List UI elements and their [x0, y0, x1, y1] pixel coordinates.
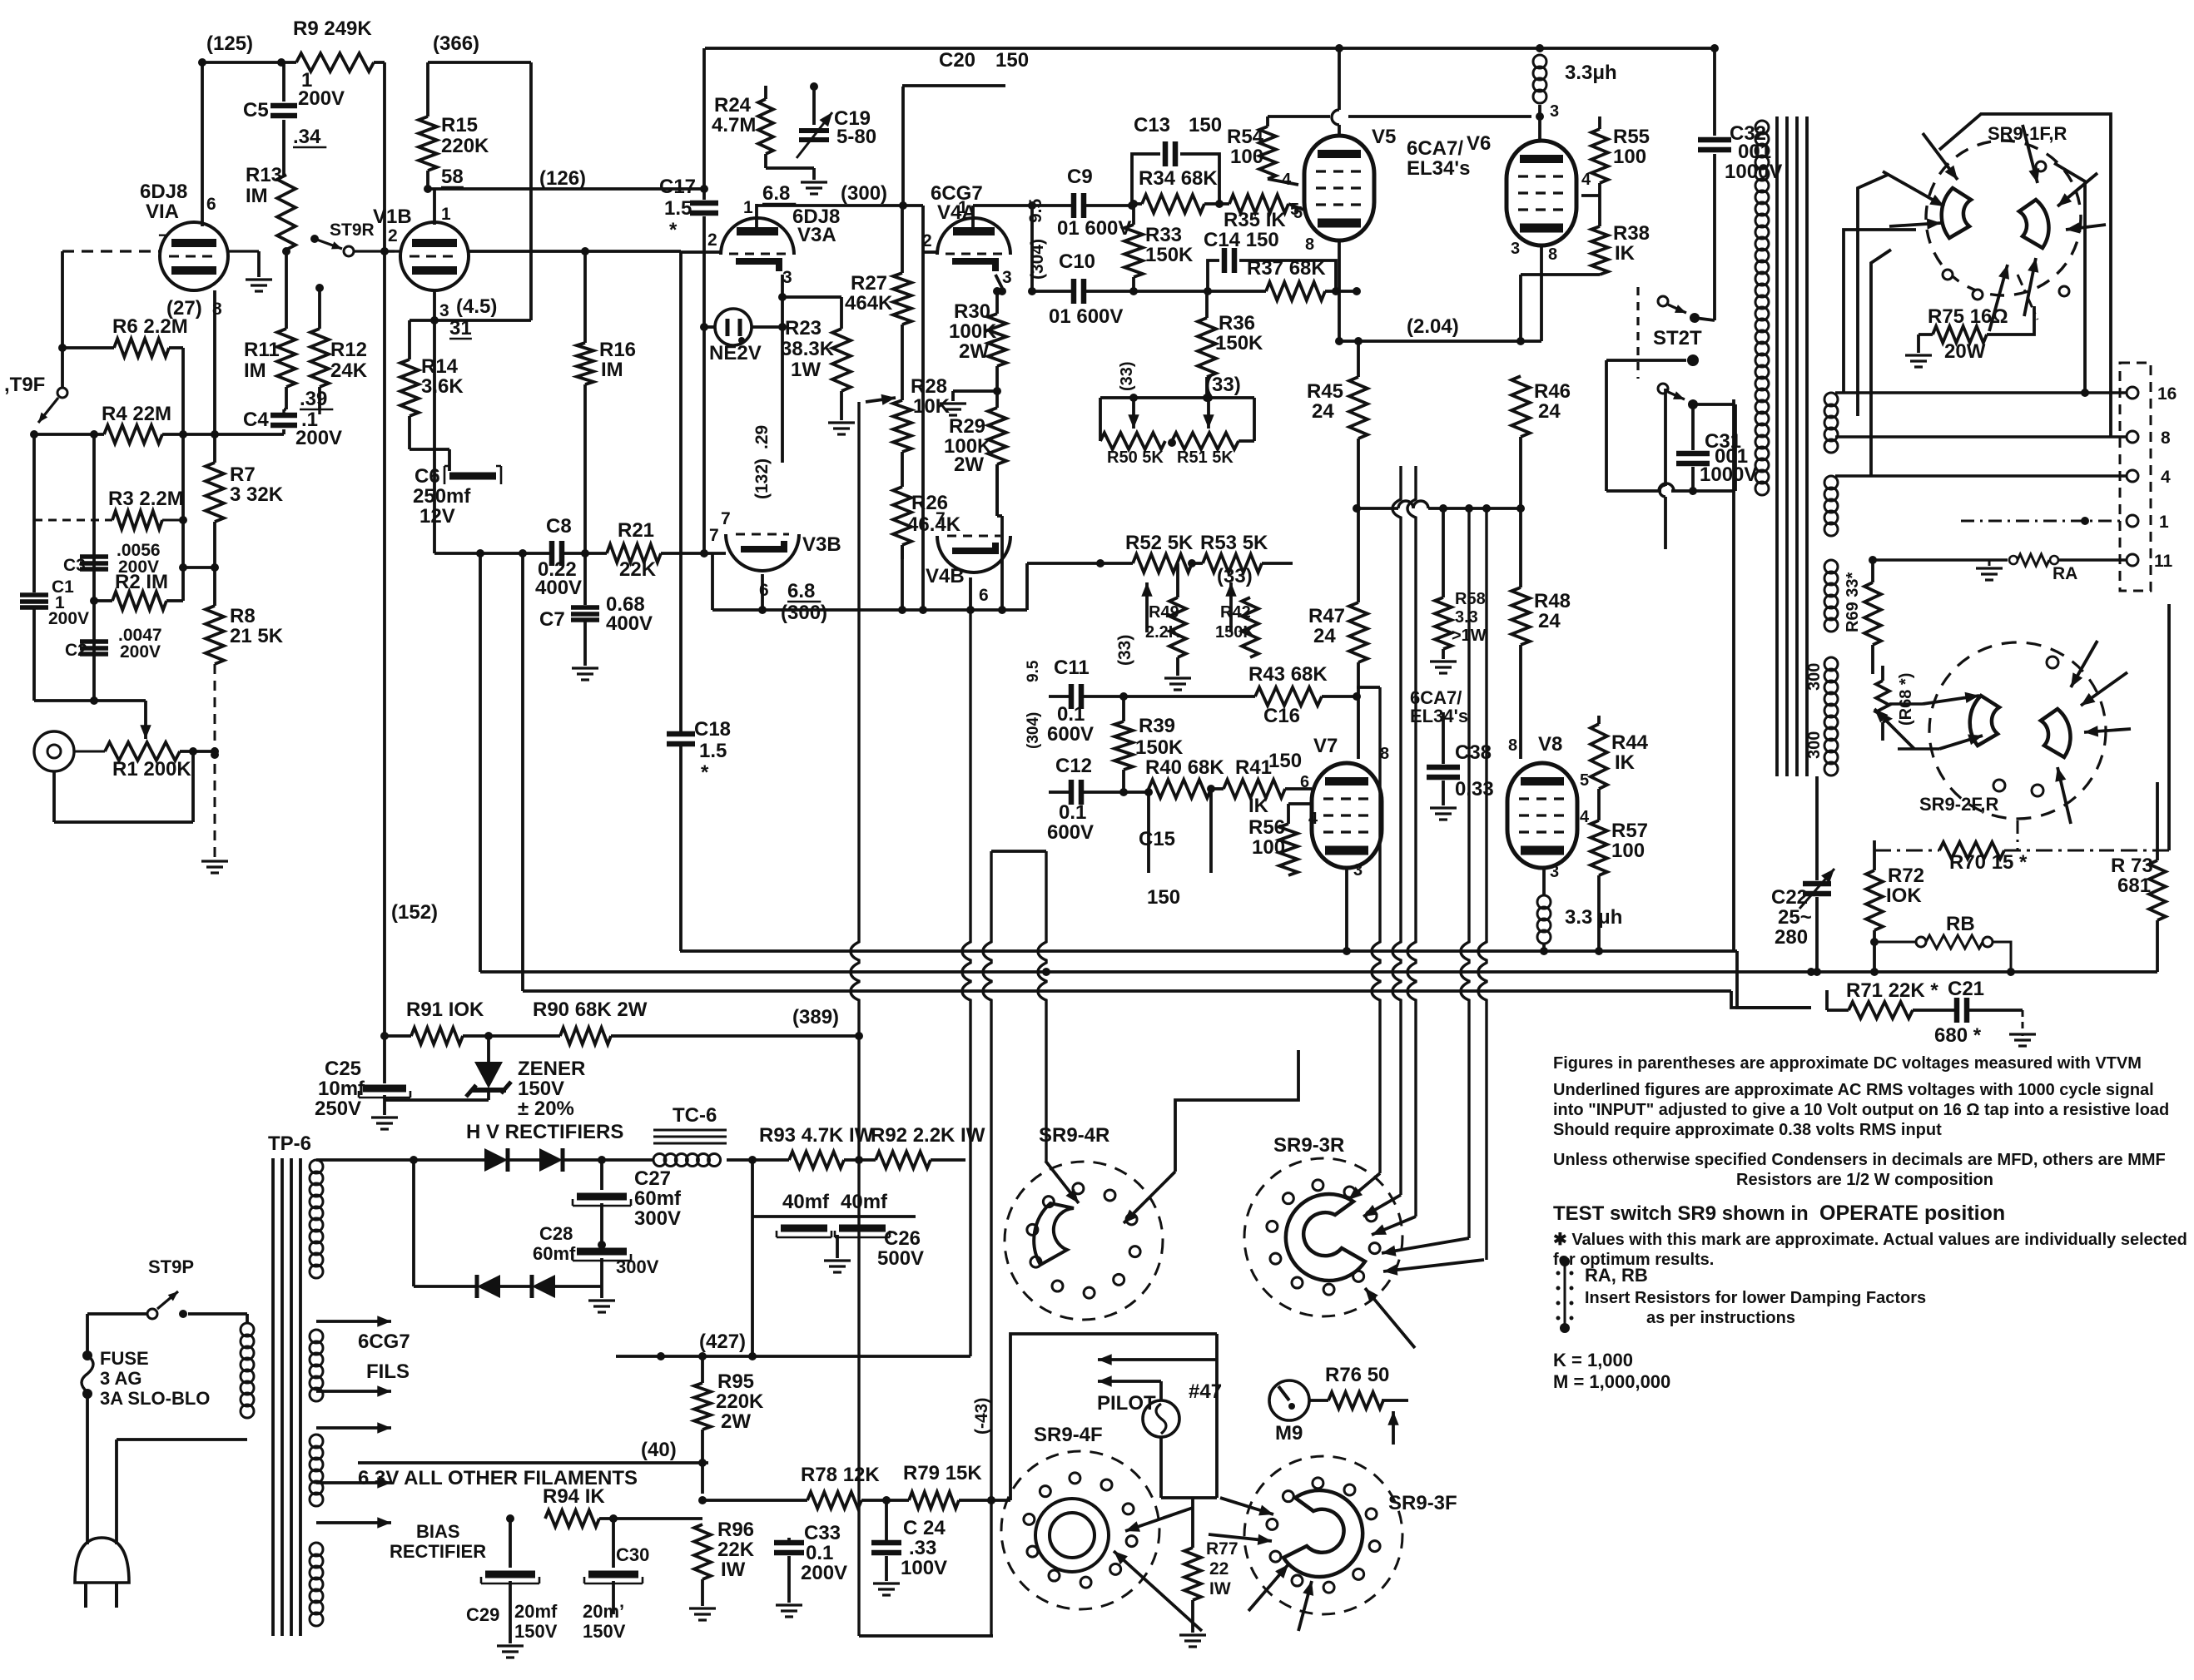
resistor R26 46.4K — [893, 487, 911, 545]
resistor R40 68K — [1144, 788, 1153, 796]
wire SR9-1 inner vertical — [2054, 163, 2085, 393]
coil 3.3uh lower — [1542, 868, 1546, 895]
wire V1B grid — [385, 250, 401, 252]
resistor R90 68K 2W — [560, 1028, 611, 1044]
arrows SR9-2 — [1923, 696, 1979, 704]
wire tap 8 — [1835, 435, 2126, 438]
svg-text:22K: 22K — [717, 1539, 755, 1561]
svg-text:21 5K: 21 5K — [230, 625, 284, 647]
svg-text:R94 IK: R94 IK — [543, 1485, 605, 1508]
capacitor C4 — [282, 409, 285, 414]
ground under C7 — [572, 667, 598, 669]
svg-text:8: 8 — [1305, 235, 1314, 254]
resistor R30 100K 2W — [995, 291, 999, 314]
wire V1B plate up — [433, 189, 436, 225]
capacitor C9 .01 600V — [1032, 204, 1074, 207]
input jack — [34, 731, 74, 771]
wire bus1 east corner — [1737, 951, 1811, 1008]
svg-text:R6 2.2M: R6 2.2M — [112, 315, 188, 338]
svg-text:24K: 24K — [330, 359, 368, 382]
svg-text:.33: .33 — [909, 1537, 936, 1559]
resistor R45 24 — [1357, 341, 1360, 377]
resistor R38 1K — [1591, 226, 1608, 275]
wire R26 bottom to y733 — [901, 545, 904, 610]
capacitor C21 680* — [1913, 1008, 1955, 1012]
svg-text:C4: C4 — [243, 409, 269, 431]
svg-text:C18: C18 — [694, 718, 731, 741]
wire x2001 down from switch — [1664, 389, 1667, 486]
arrows heater — [316, 1320, 391, 1323]
wire (40) row — [358, 1461, 708, 1464]
svg-text:200V: 200V — [801, 1562, 847, 1584]
svg-text:4: 4 — [1581, 171, 1591, 189]
svg-text:C11: C11 — [1054, 657, 1090, 679]
neon NE2V — [715, 309, 752, 345]
svg-text:R9 249K: R9 249K — [293, 17, 372, 40]
svg-text:IOK: IOK — [1886, 885, 1922, 907]
wire V5 cathode down — [1338, 240, 1341, 341]
svg-text:R38: R38 — [1613, 222, 1650, 245]
svg-text:400V: 400V — [535, 577, 582, 599]
diode D1 — [484, 1148, 508, 1172]
wire V1B cathode to C8 row — [433, 320, 436, 553]
tube V8 — [1507, 763, 1577, 868]
RA RB note symbol — [1560, 1256, 1570, 1266]
svg-text:3: 3 — [439, 301, 449, 320]
output transformer core — [1775, 116, 1779, 776]
svg-text:1: 1 — [441, 205, 451, 224]
svg-text:R75 16Ω: R75 16Ω — [1928, 305, 2008, 328]
svg-text:25~: 25~ — [1778, 906, 1812, 929]
wire y522 R4 row — [34, 433, 104, 436]
svg-text:(300): (300) — [781, 602, 827, 624]
wire x2606 lower — [2167, 604, 2171, 850]
capacitor C10 .01 600V — [1032, 290, 1074, 293]
wire HV top y1390 — [316, 1158, 484, 1162]
svg-text:FILS: FILS — [366, 1360, 410, 1383]
wire y350 to C14/R37 — [1134, 290, 1208, 293]
terminal 11 — [2127, 554, 2138, 566]
svg-text:250mf: 250mf — [413, 485, 471, 508]
resistor R21 22K — [607, 544, 661, 562]
wire y733 link — [712, 608, 1027, 612]
resistor R12 24K — [310, 329, 329, 387]
resistor R46 24 — [1511, 376, 1530, 437]
resistor R96 22K 1W — [694, 1524, 711, 1579]
wire V6 cathode down — [1540, 245, 1543, 341]
ground C21 — [2022, 1010, 2024, 1036]
capacitor C32 .001 1000V — [1713, 48, 1716, 136]
svg-text:R1 200K: R1 200K — [112, 758, 191, 781]
wire (389) row — [385, 1034, 411, 1038]
svg-text:IW: IW — [1209, 1579, 1231, 1598]
ground under C28 — [600, 1286, 603, 1298]
svg-text:300V: 300V — [634, 1207, 681, 1230]
svg-text:0.1: 0.1 — [1057, 703, 1085, 726]
wire (300) y247 — [757, 204, 923, 207]
svg-text:100: 100 — [1613, 146, 1646, 168]
svg-text:C28: C28 — [539, 1223, 573, 1244]
svg-text:R79 15K: R79 15K — [903, 1462, 982, 1484]
svg-text:200V: 200V — [295, 427, 342, 449]
svg-text:(33): (33) — [1115, 635, 1134, 666]
svg-text:R34 68K: R34 68K — [1139, 167, 1218, 190]
SR9-1 rotor arc right — [2019, 200, 2048, 248]
svg-text:V8: V8 — [1538, 733, 1562, 756]
svg-text:R90 68K 2W: R90 68K 2W — [533, 999, 648, 1021]
svg-text:R45: R45 — [1307, 380, 1343, 403]
svg-text:.39: .39 — [300, 388, 327, 410]
svg-text:680 *: 680 * — [1934, 1024, 1982, 1047]
resistor R36 150K — [1198, 318, 1216, 377]
svg-text:R36: R36 — [1219, 312, 1255, 335]
terminal 8 — [2127, 431, 2138, 443]
resistor R23 38.3K 1W — [782, 295, 841, 299]
svg-text:R55: R55 — [1613, 126, 1650, 148]
wire x1032 wiper column long — [851, 402, 859, 1636]
wire x904 down — [751, 1217, 754, 1356]
svg-text:as per instructions: as per instructions — [1646, 1309, 1795, 1327]
svg-text:2W: 2W — [959, 340, 989, 363]
wire x1257 down to SR9-4R — [1038, 851, 1046, 1161]
winding 6.3V — [310, 1435, 323, 1448]
svg-text:100: 100 — [1230, 146, 1263, 168]
resistor R91 10K — [411, 1028, 463, 1044]
pot R1 200K — [74, 751, 105, 753]
svg-text:R21: R21 — [618, 519, 654, 542]
wire feedback right vertical — [529, 62, 533, 320]
wire left vertical x846 — [702, 48, 706, 200]
wire left column x41 — [32, 434, 36, 592]
capacitor C33 0.1 200V — [787, 1538, 791, 1541]
svg-text:R42: R42 — [1220, 603, 1251, 622]
svg-text:± 20%: ± 20% — [518, 1098, 574, 1120]
wire V3A cathode down x940 — [781, 275, 784, 463]
svg-text:R49: R49 — [1149, 603, 1179, 622]
resistor R37 68K — [1208, 290, 1266, 293]
resistor R13 1M — [277, 175, 295, 250]
svg-text:150: 150 — [1189, 114, 1222, 136]
svg-text:R71 22K *: R71 22K * — [1846, 979, 1938, 1002]
svg-text:4: 4 — [1308, 810, 1318, 828]
svg-text:C27: C27 — [634, 1167, 671, 1190]
winding bias — [310, 1543, 323, 1556]
svg-text:R11: R11 — [244, 339, 280, 361]
svg-text:ST9P: ST9P — [148, 1256, 194, 1277]
svg-text:22K: 22K — [619, 558, 657, 581]
svg-text:46.4K: 46.4K — [907, 513, 961, 536]
svg-text:ST2T: ST2T — [1653, 327, 1702, 349]
svg-text:1: 1 — [743, 198, 753, 217]
wire box SR9-4F — [1010, 1334, 1217, 1500]
wire SR9-1 top right outline — [1939, 114, 2111, 437]
svg-text:150K: 150K — [1215, 623, 1255, 642]
resistor R52 5K — [1133, 554, 1192, 572]
svg-text:(427): (427) — [699, 1331, 746, 1353]
wire V1A cathode down — [213, 290, 216, 463]
svg-text:60mf: 60mf — [533, 1243, 576, 1264]
resistor R77 22 1W — [1191, 1498, 1194, 1548]
wire neon row — [704, 325, 715, 329]
svg-text:V3B: V3B — [802, 533, 841, 556]
wire R55 to V6 pin4 — [1598, 183, 1601, 196]
wire V1B cathode node (4.5) — [433, 290, 436, 320]
svg-text:5: 5 — [1290, 201, 1299, 219]
wire y1168 bus2 — [480, 970, 2157, 974]
svg-text:R48: R48 — [1534, 590, 1571, 612]
svg-text:20m’: 20m’ — [583, 1601, 624, 1622]
svg-text:✱ Values with this mark a: ✱ Values with this mark are approximate.… — [1553, 1231, 2187, 1249]
svg-text:C16: C16 — [1263, 705, 1300, 727]
output transformer primary winding — [1755, 121, 1769, 134]
resistor R3 22M — [112, 511, 162, 529]
svg-text:RA, RB: RA, RB — [1585, 1265, 1648, 1286]
svg-text:R12: R12 — [330, 339, 367, 361]
wire V4A grid down x1109 — [923, 250, 937, 254]
resistor R48 24 — [1511, 587, 1530, 645]
svg-text:(132): (132) — [752, 458, 772, 499]
capacitor C38 0.33 — [1442, 712, 1445, 764]
capacitor C20 150 — [902, 84, 1005, 87]
SR9-1 rotor arc left — [1942, 188, 1971, 238]
svg-text:R37 68K: R37 68K — [1247, 257, 1326, 280]
svg-text:11: 11 — [2154, 552, 2173, 571]
tube V3B — [726, 534, 799, 571]
svg-text:C33: C33 — [804, 1522, 841, 1544]
svg-text:10K: 10K — [913, 395, 951, 418]
wire (366) top — [428, 61, 531, 64]
svg-text:3 AG: 3 AG — [100, 1368, 142, 1389]
resistor R35 1K — [1229, 195, 1288, 213]
arrows SR9-1 — [1923, 133, 1958, 180]
svg-text:3: 3 — [1511, 240, 1520, 258]
svg-text:IM: IM — [601, 359, 623, 381]
svg-text:40mf: 40mf — [841, 1191, 888, 1213]
wire V4A plate to C9 branch — [973, 204, 1032, 207]
svg-text:5-80: 5-80 — [836, 126, 876, 148]
wire V1A plate to top — [201, 62, 204, 226]
svg-text:*: * — [669, 219, 678, 241]
svg-text:12V: 12V — [419, 505, 455, 528]
svg-text:01 600V: 01 600V — [1057, 217, 1131, 240]
svg-text:24: 24 — [1538, 400, 1561, 423]
svg-text:150: 150 — [1147, 886, 1180, 909]
tube V1A 6DJ8 — [160, 222, 228, 290]
svg-text:R16: R16 — [599, 339, 636, 361]
svg-text:V4B: V4B — [926, 565, 965, 587]
svg-text:FUSE: FUSE — [100, 1348, 149, 1369]
svg-text:1000V: 1000V — [1725, 161, 1782, 183]
svg-text:R14: R14 — [421, 355, 459, 378]
capacitor C7 0.68 400V — [583, 553, 587, 605]
svg-text:(304): (304) — [1025, 712, 1042, 749]
svg-text:IM: IM — [244, 359, 266, 382]
switch ST9F — [57, 388, 67, 398]
svg-text:R23: R23 — [785, 317, 822, 339]
resistor R69 33* — [1864, 582, 1881, 645]
svg-text:SR9-4F: SR9-4F — [1034, 1424, 1103, 1446]
svg-text:3.3 μh: 3.3 μh — [1565, 906, 1622, 929]
svg-text:R91 IOK: R91 IOK — [406, 999, 484, 1021]
resistor R2 1M — [90, 597, 98, 605]
svg-text:C30: C30 — [616, 1544, 649, 1565]
ground input stage — [201, 860, 228, 862]
resistor R29 100K 2W — [988, 408, 1006, 464]
tube V1B 6DJ8 — [400, 222, 469, 290]
svg-text:R43 68K: R43 68K — [1248, 663, 1328, 686]
svg-text:58: 58 — [441, 166, 464, 188]
capacitor C17 1.5 — [690, 201, 718, 206]
svg-text:R53 5K: R53 5K — [1200, 532, 1268, 554]
terminal strip box — [2120, 363, 2151, 591]
wire V1A grid line — [62, 250, 160, 252]
tube V3A 6DJ8 — [721, 218, 794, 255]
svg-text:10mf: 10mf — [318, 1078, 365, 1100]
svg-text:OPERATE position: OPERATE position — [1819, 1202, 2005, 1225]
wire B+ top-left (125) line — [202, 61, 296, 64]
svg-text:3.3μh: 3.3μh — [1565, 62, 1617, 84]
resistor R16 1M — [583, 251, 587, 343]
ground R96 — [689, 1607, 716, 1609]
wire y837 to R43 — [1132, 695, 1255, 698]
resistor R39 150K — [1122, 696, 1125, 721]
resistor R7 3.32K — [206, 463, 224, 522]
svg-text:(366): (366) — [433, 32, 479, 55]
svg-text:R3 2.2M: R3 2.2M — [108, 488, 184, 510]
svg-text:into "INPUT" adjusted to giv: into "INPUT" adjusted to give a 10 Volt … — [1553, 1101, 2169, 1119]
wire x856 from C8 line — [711, 553, 714, 610]
coil 3.3uh top — [1536, 44, 1544, 52]
wire y733 up to R52 row — [1025, 563, 1029, 610]
svg-text:6: 6 — [206, 195, 216, 214]
svg-text:16: 16 — [2157, 384, 2177, 404]
wire ST9P to primary — [188, 1312, 247, 1316]
svg-text:C17: C17 — [659, 176, 696, 198]
resistor R33 150K — [1132, 204, 1135, 225]
svg-text:R69 33*: R69 33* — [1844, 572, 1862, 632]
arrows into SR9-3F — [1220, 1498, 1273, 1514]
svg-text:C9: C9 — [1067, 166, 1093, 188]
svg-text:3.6K: 3.6K — [421, 375, 464, 398]
terminal 16 — [2127, 387, 2138, 399]
switch ST2T — [1636, 287, 1639, 379]
svg-text:(126): (126) — [539, 167, 586, 190]
svg-text:K = 1,000: K = 1,000 — [1553, 1350, 1633, 1370]
resistor R70 15* — [1939, 842, 2004, 859]
wire grid line to feedback column — [469, 250, 681, 253]
svg-text:M9: M9 — [1275, 1422, 1303, 1445]
svg-text:M = 1,000,000: M = 1,000,000 — [1553, 1371, 1670, 1392]
wire y245 to R34 — [1132, 202, 1142, 206]
svg-text:7: 7 — [709, 526, 719, 545]
svg-text:5: 5 — [1580, 771, 1589, 790]
svg-text:1: 1 — [2159, 513, 2169, 532]
svg-text:3: 3 — [1550, 102, 1559, 121]
svg-text:200V: 200V — [120, 642, 161, 662]
winding 6CG7 FILS — [310, 1330, 323, 1343]
terminal 4 — [2127, 470, 2138, 482]
ground V4A cathode branch — [995, 366, 999, 408]
diodes lower — [414, 1285, 477, 1288]
svg-text:ZENER: ZENER — [518, 1058, 585, 1080]
ground near RA — [1988, 560, 1991, 566]
svg-text:1.5: 1.5 — [699, 740, 727, 762]
svg-text:22: 22 — [1209, 1559, 1229, 1578]
resistor R44 1K — [1597, 716, 1601, 724]
svg-text:R 73: R 73 — [2111, 855, 2153, 877]
svg-text:Insert Resistors for lower: Insert Resistors for lower Damping Facto… — [1585, 1289, 1926, 1307]
resistor R93 4.7K 1W — [727, 1158, 789, 1162]
tube V7 — [1312, 763, 1382, 868]
wire x1240 link — [1030, 206, 1034, 291]
capacitor C1 1 200V — [20, 592, 48, 597]
svg-text:SR9-4R: SR9-4R — [1039, 1124, 1109, 1147]
svg-text:C21: C21 — [1948, 978, 1984, 1000]
wire V4B bottom down — [969, 577, 972, 610]
svg-text:EL34's: EL34's — [1410, 706, 1468, 726]
svg-text:R4 22M: R4 22M — [102, 403, 171, 425]
resistor R41 1K — [1224, 780, 1285, 798]
svg-text:C10: C10 — [1059, 250, 1095, 273]
svg-text:R41: R41 — [1235, 756, 1272, 779]
wires SR9-2 feeds — [1889, 702, 1923, 705]
svg-text:(152): (152) — [391, 901, 438, 924]
R68 pot — [1876, 681, 1889, 722]
capacitor C28 60mf 300V — [598, 1241, 606, 1249]
svg-text:V5: V5 — [1372, 126, 1396, 148]
svg-text:R44: R44 — [1611, 731, 1649, 754]
wire R24 bottom — [766, 166, 814, 170]
svg-text:2: 2 — [707, 230, 717, 250]
svg-text:R72: R72 — [1888, 865, 1924, 887]
svg-text:Figures in parentheses are: Figures in parentheses are approximate D… — [1553, 1054, 2142, 1073]
svg-text:38.3K: 38.3K — [781, 338, 835, 360]
capacitor C22 25-280 variable — [1815, 776, 1819, 880]
svg-text:C25: C25 — [325, 1058, 361, 1080]
capacitor C27 60mf 300V — [600, 1160, 603, 1190]
svg-text:R96: R96 — [717, 1519, 754, 1541]
wire (427) row — [616, 1355, 970, 1358]
svg-text:200V: 200V — [298, 87, 345, 110]
svg-text:4: 4 — [2161, 468, 2171, 487]
svg-text:2W: 2W — [954, 453, 984, 476]
tube V4A 6CG7 — [937, 218, 1010, 255]
wire R29 bottom — [995, 464, 999, 516]
svg-text:V1B: V1B — [373, 206, 412, 228]
svg-text:150K: 150K — [1135, 736, 1184, 759]
svg-text:3 32K: 3 32K — [230, 483, 284, 506]
svg-text:0.1: 0.1 — [1059, 801, 1086, 824]
svg-text:R77: R77 — [1206, 1539, 1238, 1559]
capacitor C13 150 loop — [1132, 154, 1160, 204]
svg-text:6.8: 6.8 — [787, 580, 815, 602]
wire top loop y58 — [705, 47, 1715, 50]
capacitor C14 150 loop — [1208, 260, 1219, 291]
resistor R9 249K — [296, 53, 374, 72]
resistor R71 22K* — [1825, 990, 1829, 1010]
resistor R43 68K — [1255, 687, 1322, 706]
svg-text:C8: C8 — [546, 515, 572, 538]
svg-text:V4A: V4A — [937, 201, 976, 224]
wire pilot down to R77 — [1159, 1437, 1163, 1498]
resistor R76 50 — [1309, 1399, 1328, 1402]
resistor R73 681 — [2156, 782, 2159, 860]
resistor R58 3.3 1W — [1442, 508, 1445, 597]
svg-text:300V: 300V — [616, 1256, 659, 1277]
svg-text:C26: C26 — [884, 1227, 921, 1250]
svg-text:R54: R54 — [1227, 126, 1264, 148]
svg-text:150V: 150V — [583, 1621, 626, 1642]
